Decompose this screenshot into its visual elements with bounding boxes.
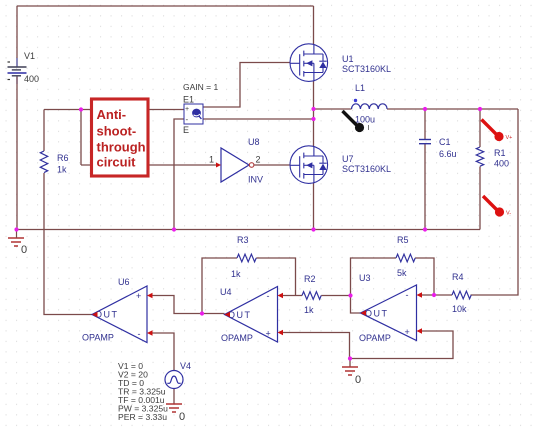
junction at U3 -input node (432, 293, 436, 297)
svg-text:2: 2 (256, 155, 261, 165)
svg-text:U4: U4 (220, 287, 232, 297)
resistor R3 (237, 254, 256, 262)
svg-text:circuit: circuit (97, 155, 137, 170)
U3 -input pin arrow (417, 292, 423, 297)
wire U3 -input to node (422, 294, 435, 296)
wire U1 drain vertical (313, 6, 315, 45)
voltage probe V- at R1 bottom (483, 196, 497, 210)
svg-text:V4: V4 (180, 361, 191, 371)
svg-text:10k: 10k (452, 304, 467, 314)
U6 +input pin arrow (147, 293, 153, 298)
junction at C1 bottom on ground rail (423, 227, 427, 231)
svg-text:1k: 1k (231, 269, 241, 279)
svg-text:L1: L1 (355, 83, 365, 93)
U4 output pin arrow (225, 312, 231, 317)
svg-text:I: I (368, 123, 370, 132)
svg-text:+: + (266, 329, 271, 339)
svg-text:U3: U3 (359, 273, 371, 283)
wire top rail from V1 to U1 drain (17, 5, 314, 7)
U4 -input pin arrow (278, 293, 284, 298)
pulse source V4 (165, 371, 183, 389)
wire U4 +input to analog ground (281, 333, 350, 359)
svg-text:through: through (97, 140, 146, 155)
svg-text:6.6u: 6.6u (439, 149, 457, 159)
svg-text:V1: V1 (24, 51, 35, 61)
svg-text:U8: U8 (248, 137, 260, 147)
current probe on L1 (343, 111, 358, 126)
opamp U3 (361, 285, 417, 341)
svg-text:OPAMP: OPAMP (359, 333, 391, 343)
svg-text:V-: V- (506, 211, 511, 217)
wire U7 source to bottom rail (313, 182, 315, 230)
junction at U7 source on ground rail (311, 227, 315, 231)
wire node to R4 left (434, 294, 452, 296)
svg-text:OUT: OUT (365, 309, 389, 319)
inductor L1 (352, 104, 388, 109)
svg-text:Anti-: Anti- (97, 107, 127, 122)
anti-shoot-through annotation box (92, 99, 149, 176)
wire V1 bottom lead to ground rail (16, 77, 18, 230)
wire bottom rail (16, 229, 480, 231)
svg-text:OPAMP: OPAMP (82, 333, 114, 343)
wire L1 right to C1 R1 and right rail (387, 108, 518, 110)
opamp U6 (92, 286, 147, 343)
wire analog ground stub (349, 359, 351, 368)
resistor R5 (396, 254, 415, 262)
svg-text:C1: C1 (439, 137, 451, 147)
svg-text:OUT: OUT (95, 310, 119, 320)
U6 output pin arrow (92, 312, 98, 317)
svg-text:5k: 5k (397, 268, 407, 278)
svg-text:V+: V+ (506, 135, 513, 141)
wire anti-shoot branch to U8 input (81, 164, 217, 166)
wire midpoint node to L1 left (314, 108, 352, 110)
svg-text:1: 1 (209, 155, 214, 165)
svg-text:R2: R2 (304, 274, 316, 284)
voltage probe V+ at R1 top (482, 120, 497, 135)
resistor R1 (476, 147, 483, 166)
svg-text:U7: U7 (342, 154, 354, 164)
wire R6 top lead (43, 110, 45, 152)
wire E1 output+ to U1 gate (203, 63, 291, 108)
svg-text:R3: R3 (237, 235, 249, 245)
svg-text:+: + (405, 327, 410, 337)
svg-text:R5: R5 (397, 235, 409, 245)
junction at midpoint node to E1 output (311, 117, 315, 121)
mosfet U1 (290, 44, 328, 82)
wire R5 right lead down to U3 -input node (415, 258, 434, 295)
svg-text:-: - (267, 291, 270, 301)
svg-text:-: - (186, 115, 189, 124)
svg-text:400: 400 (24, 74, 39, 84)
junction at R1 top (478, 107, 482, 111)
wire node to E1 input+ (44, 109, 184, 111)
U6 -input pin arrow (147, 330, 153, 335)
vcvs E1 (184, 104, 203, 124)
svg-text:OPAMP: OPAMP (221, 333, 253, 343)
ground 0 analog (342, 367, 358, 375)
svg-text:R4: R4 (452, 272, 464, 282)
svg-text:0: 0 (21, 244, 27, 256)
wire R1 bottom lead (479, 167, 481, 230)
svg-text:0: 0 (179, 411, 185, 423)
wire U6 +input to U4 output node (151, 296, 225, 314)
svg-text:INV: INV (248, 175, 263, 185)
junction at analog ground node (348, 356, 352, 360)
resistor R2 (302, 292, 321, 300)
battery V1 (16, 58, 18, 67)
junction at V1 ground (14, 227, 18, 231)
svg-text:1k: 1k (57, 165, 67, 175)
junction at anti-shoot-through input node (79, 107, 83, 111)
svg-text:GAIN = 1: GAIN = 1 (183, 82, 218, 92)
wire V4 bottom to ground (173, 389, 175, 405)
inverter U8 (221, 148, 254, 182)
resistor R4 (452, 291, 471, 299)
wire anti-shoot branch down (80, 110, 82, 166)
svg-text:+: + (185, 106, 189, 113)
wire U1 source to U7 drain (midpoint node) (313, 80, 315, 147)
svg-text:-: - (406, 290, 409, 300)
wire U6 -input to V4 (151, 333, 174, 371)
U3 output pin arrow (361, 310, 367, 315)
pin 1 arrow U8 (216, 163, 221, 168)
wire U3 +input to analog ground (350, 331, 453, 359)
wire node down to U3 output (351, 296, 361, 314)
wire right rail down to R4 (471, 109, 519, 295)
svg-text:E: E (183, 125, 189, 135)
svg-text:OUT: OUT (228, 310, 252, 320)
ground 0 V4 (166, 404, 182, 412)
junction at E1 return on ground rail (172, 227, 176, 231)
wire C1 bottom lead (424, 144, 426, 230)
svg-text:U6: U6 (118, 277, 130, 287)
wire R3 right lead down to U4 -input (256, 258, 295, 296)
wire R6 bottom lead down to U6 output (44, 173, 92, 315)
U3 +input pin arrow (417, 328, 423, 333)
wire U4 -input to R2 (281, 295, 302, 297)
resistor R6 (40, 151, 47, 173)
svg-text:-: - (138, 329, 141, 339)
junction at U4 output node (200, 311, 204, 315)
wire R1 top lead (479, 109, 481, 147)
svg-text:SCT3160KL: SCT3160KL (342, 64, 391, 74)
svg-text:0: 0 (355, 374, 361, 386)
svg-text:E1: E1 (183, 95, 194, 105)
svg-text:+: + (136, 291, 141, 301)
svg-text:400: 400 (494, 159, 509, 169)
wire R5 left lead (351, 258, 397, 296)
svg-text:SCT3160KL: SCT3160KL (342, 164, 391, 174)
mosfet U7 (290, 146, 328, 184)
junction at C1 top (423, 107, 427, 111)
opamp U4 (225, 287, 278, 343)
junction at U3 output feedback node (348, 293, 352, 297)
svg-text:U1: U1 (342, 54, 354, 64)
junction at midpoint node to L1 (311, 107, 315, 111)
wire E1 input- down to ground rail (174, 119, 184, 230)
U4 +input pin arrow (278, 330, 284, 335)
V4 parameter text (118, 361, 168, 422)
wire E1 output- to midpoint node (203, 118, 314, 120)
svg-text:R1: R1 (494, 148, 506, 158)
svg-text:shoot-: shoot- (97, 124, 137, 139)
svg-text:R6: R6 (57, 153, 69, 163)
capacitor C1 (419, 140, 431, 144)
wire U8 output to U7 gate (254, 164, 291, 166)
wire R2 right to node (321, 295, 350, 297)
svg-text:PER = 3.33u: PER = 3.33u (118, 412, 167, 422)
wire R3 left lead down to U4 output node (202, 258, 237, 314)
ground 0 left (8, 238, 24, 246)
wire C1 top lead (424, 109, 426, 139)
wire V1 top lead (16, 6, 18, 66)
svg-text:1k: 1k (304, 305, 314, 315)
svg-text:100u: 100u (355, 115, 375, 125)
